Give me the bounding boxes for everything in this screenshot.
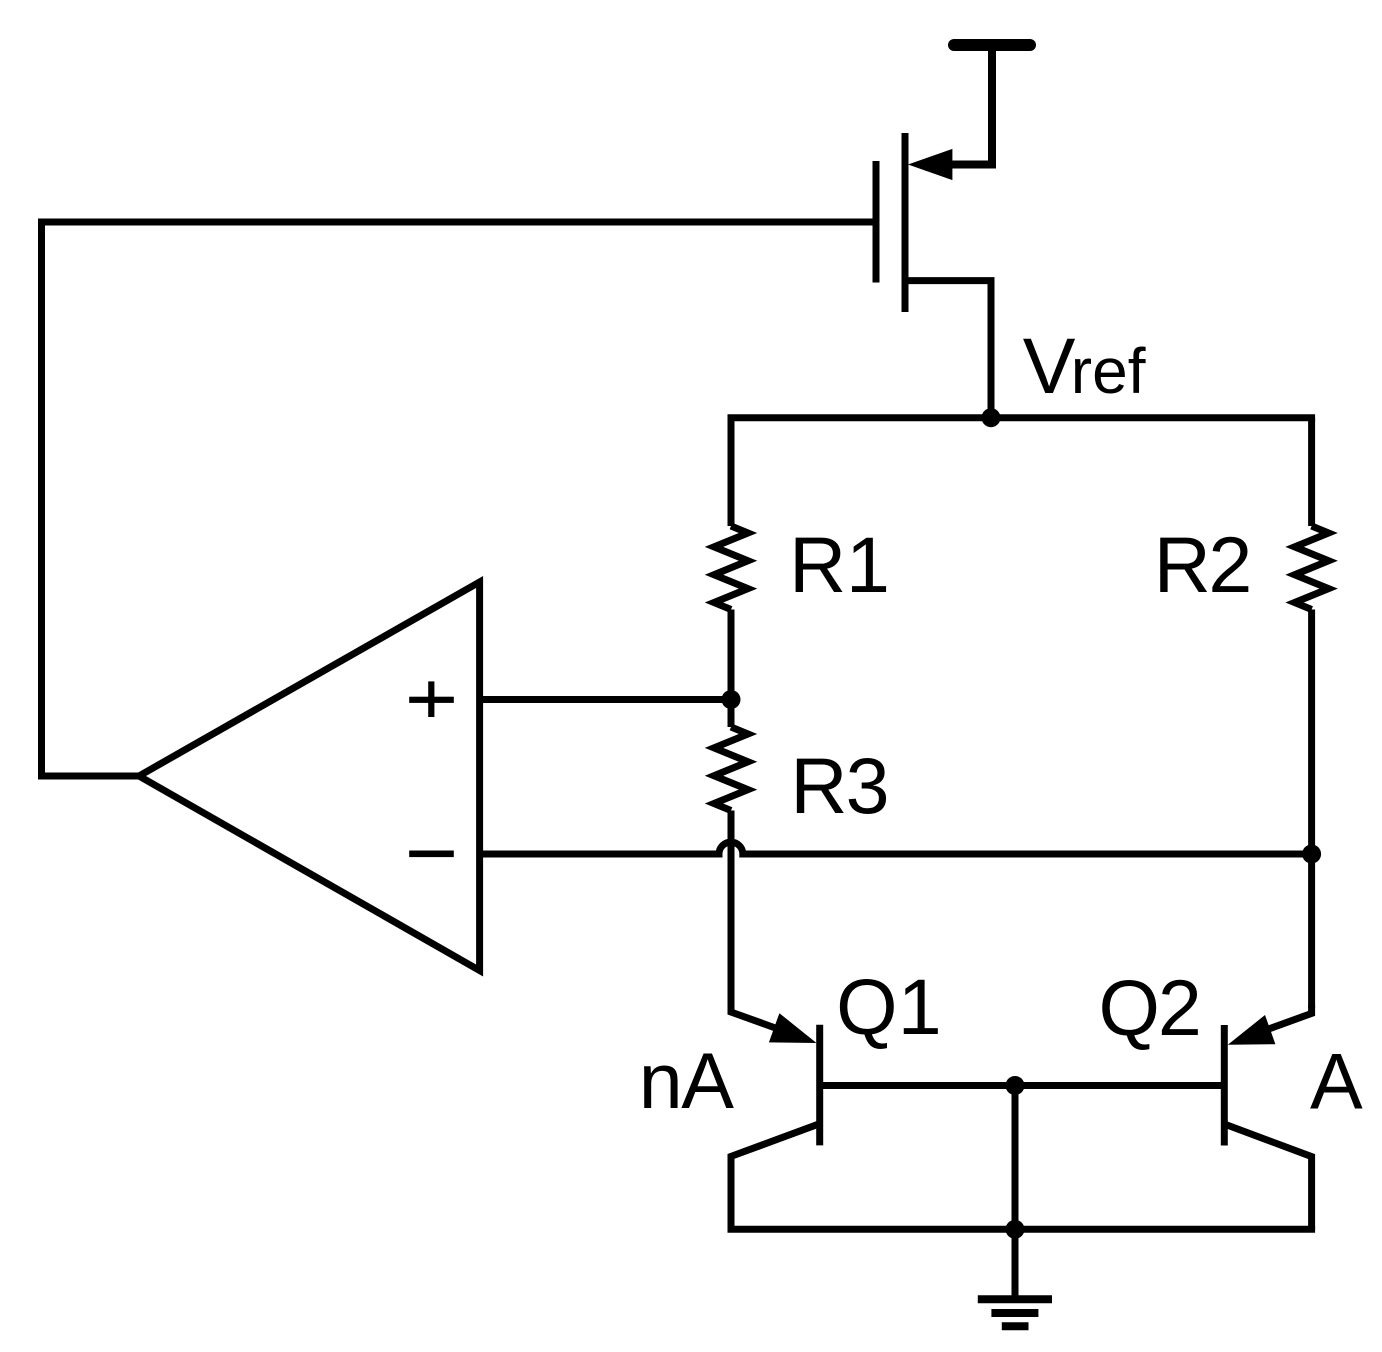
svg-text:R: R xyxy=(1154,520,1211,609)
resistor R2 xyxy=(1295,418,1329,854)
ground xyxy=(978,1299,1052,1326)
M1 gate bar xyxy=(873,161,880,283)
Q1 emitter lead xyxy=(731,1004,781,1030)
Q1 base bar xyxy=(816,1025,823,1146)
M1 channel bar xyxy=(902,133,909,312)
Q2 collector lead xyxy=(1224,1124,1311,1229)
wire top rail from R1 to R2 xyxy=(728,414,1316,421)
Q2 emitter lead xyxy=(1263,1005,1312,1031)
svg-text:2: 2 xyxy=(1208,520,1252,609)
U1 minus input marker xyxy=(409,851,454,858)
wire VDD stem to M1 source xyxy=(950,45,992,165)
node bottom rail junction dot xyxy=(1006,1220,1025,1239)
Q2 emitter arrow xyxy=(1228,1015,1276,1045)
Q1 collector lead xyxy=(731,1124,820,1230)
power rail VDD xyxy=(954,39,1030,51)
svg-text:n: n xyxy=(639,1036,683,1125)
svg-text:A: A xyxy=(1310,1037,1363,1126)
U1 triangle body xyxy=(139,582,480,971)
svg-text:Q: Q xyxy=(1099,963,1160,1052)
svg-text:3: 3 xyxy=(846,741,890,830)
transistor M1 (PMOS) xyxy=(876,133,991,418)
wire op-amp - input to R2/Q2 node (with hop over R3 wire) xyxy=(480,842,1312,854)
svg-text:Q: Q xyxy=(836,962,897,1051)
svg-text:R: R xyxy=(790,741,847,830)
U1 plus input marker xyxy=(409,681,454,717)
node R1/R3 junction dot xyxy=(722,690,741,709)
resistor R3 xyxy=(714,700,748,1013)
M1 source arrow xyxy=(908,149,952,180)
svg-text:A: A xyxy=(681,1036,734,1125)
wire bottom rail xyxy=(728,1226,1316,1233)
M1 drain lead xyxy=(905,281,991,418)
node Vref junction dot xyxy=(982,408,1001,427)
op-amp U1 xyxy=(139,582,480,971)
transistor Q2 xyxy=(1015,1005,1312,1229)
wire ground stub xyxy=(1012,1229,1019,1298)
wire gate feedback (gate to op-amp output) xyxy=(42,222,877,776)
wire R2 node down to Q2 emitter xyxy=(1308,854,1315,1008)
node R2 / op-amp minus junction dot xyxy=(1302,845,1321,864)
Q1 emitter arrow xyxy=(769,1013,817,1043)
wire bases node down to bottom rail xyxy=(1012,1086,1019,1230)
svg-text:1: 1 xyxy=(846,520,890,609)
svg-text:1: 1 xyxy=(898,962,942,1051)
svg-text:ref: ref xyxy=(1071,335,1146,407)
wire op-amp + input to R1/R3 node xyxy=(480,696,731,703)
Q2 base bar xyxy=(1221,1025,1228,1146)
svg-text:R: R xyxy=(789,520,846,609)
transistor Q1 xyxy=(731,1004,1015,1229)
Q2 base wire xyxy=(1015,1082,1224,1089)
node bases junction dot xyxy=(1006,1076,1025,1095)
Q1 base wire xyxy=(820,1082,1015,1089)
svg-text:V: V xyxy=(1023,321,1076,410)
resistor R1 xyxy=(714,418,748,700)
svg-text:2: 2 xyxy=(1158,963,1202,1052)
